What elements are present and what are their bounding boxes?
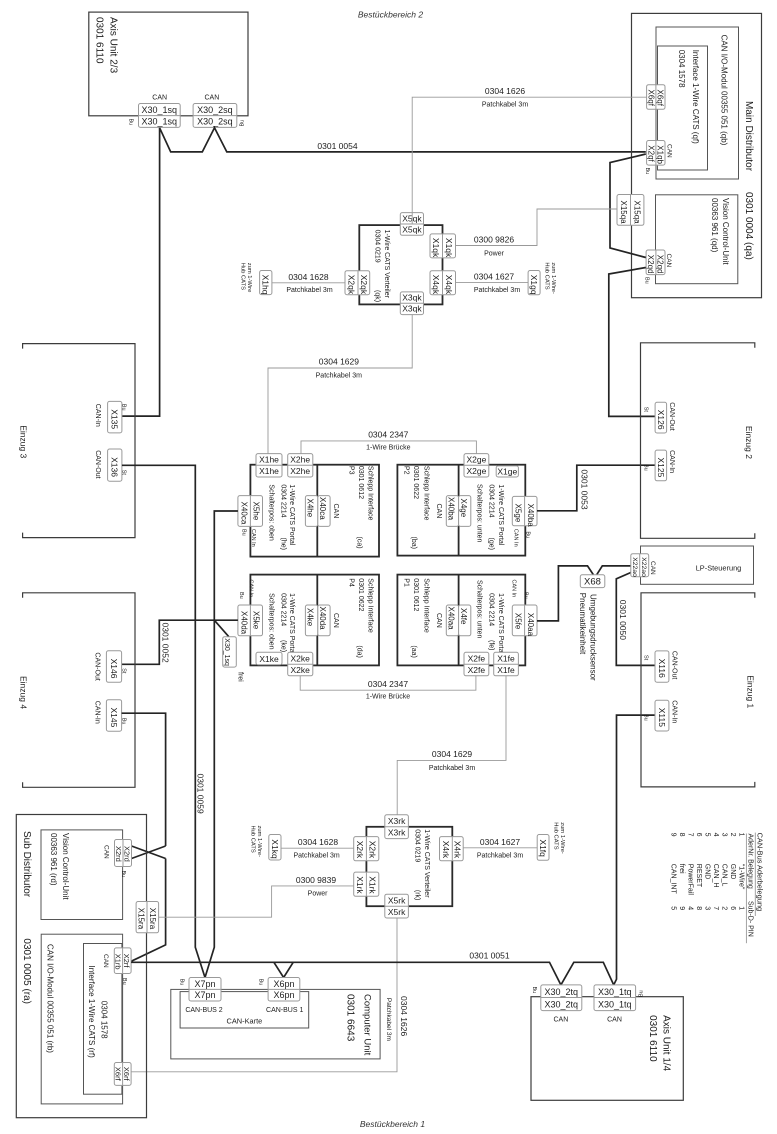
svg-text:Bu: Bu [644, 168, 650, 175]
svg-text:1-Wire CATS Portal: 1-Wire CATS Portal [497, 593, 504, 654]
svg-text:CAN I/O-Modul 00355 051 (rb: CAN I/O-Modul 00355 051 (rb) [45, 944, 54, 1053]
svg-text:0304 2347: 0304 2347 [368, 429, 408, 439]
svg-text:Schlepp Interface: Schlepp Interface [366, 466, 373, 521]
svg-text:X15ra: X15ra [148, 908, 157, 930]
svg-text:1-Wire CATS Portal: 1-Wire CATS Portal [497, 484, 504, 545]
svg-text:0304 1626: 0304 1626 [399, 996, 409, 1036]
svg-text:5: 5 [669, 906, 676, 910]
svg-text:Bu: Bu [524, 531, 530, 538]
svg-text:1-Wire CATS Portal: 1-Wire CATS Portal [288, 593, 295, 654]
svg-text:X30_1sq: X30_1sq [223, 638, 230, 666]
svg-text:(fe): (fe) [487, 640, 494, 651]
svg-text:9: 9 [669, 833, 676, 837]
svg-text:(ca): (ca) [356, 537, 363, 549]
svg-text:CAN_L: CAN_L [720, 864, 727, 887]
svg-text:X3qk: X3qk [402, 293, 422, 303]
svg-text:CAN: CAN [554, 1017, 569, 1024]
svg-text:X1rb: X1rb [114, 954, 123, 970]
svg-text:CAN-BUS 1: CAN-BUS 1 [266, 1007, 303, 1014]
svg-text:6: 6 [729, 906, 736, 910]
svg-text:X1fe: X1fe [497, 654, 515, 664]
svg-text:Power: Power [308, 890, 329, 897]
svg-text:X2rk: X2rk [368, 841, 378, 859]
svg-text:X2rk: X2rk [355, 841, 365, 859]
svg-text:X2rd: X2rd [114, 846, 123, 862]
svg-text:X1fe: X1fe [497, 665, 515, 675]
svg-text:0304 1628: 0304 1628 [288, 272, 328, 282]
svg-text:Sub-D- PIN: Sub-D- PIN [747, 901, 754, 937]
svg-text:X68: X68 [584, 577, 601, 588]
svg-text:X2rf: X2rf [122, 954, 131, 969]
svg-text:Bu: Bu [178, 979, 184, 986]
svg-text:X4qk: X4qk [444, 275, 454, 295]
svg-text:PowerFail: PowerFail [686, 864, 693, 896]
svg-text:0301 0612: 0301 0612 [357, 466, 364, 499]
svg-text:Bu: Bu [643, 714, 649, 721]
svg-text:(ge): (ge) [487, 538, 494, 550]
svg-text:Main Distributor: Main Distributor [743, 101, 754, 172]
svg-text:CAN-In: CAN-In [94, 404, 101, 427]
svg-text:X15qa: X15qa [632, 201, 641, 225]
svg-text:CAN-In: CAN-In [93, 701, 100, 724]
svg-text:0301 0059: 0301 0059 [195, 774, 205, 814]
svg-text:Hub CATS: Hub CATS [249, 826, 255, 853]
svg-text:Patchkabel 3m: Patchkabel 3m [286, 287, 332, 294]
svg-text:RESET: RESET [695, 864, 702, 888]
svg-text:CAN I/O-Modul 00355 051 (qb: CAN I/O-Modul 00355 051 (qb) [720, 35, 729, 146]
svg-text:Bu: Bu [121, 978, 127, 985]
svg-text:X4rk: X4rk [441, 841, 451, 859]
svg-text:Bu: Bu [531, 987, 537, 994]
svg-text:0304 0219: 0304 0219 [414, 829, 421, 862]
svg-text:CAN-Out: CAN-Out [94, 450, 101, 478]
svg-text:Patchkabel 3m: Patchkabel 3m [316, 373, 362, 380]
svg-text:GND: GND [703, 864, 710, 880]
svg-text:0304 2214: 0304 2214 [280, 484, 287, 517]
svg-text:CAN-In: CAN-In [670, 700, 677, 723]
svg-text:CAN In: CAN In [512, 529, 518, 547]
svg-text:CAN: CAN [152, 95, 167, 102]
svg-text:X5rk: X5rk [388, 896, 406, 906]
svg-text:4: 4 [712, 833, 719, 837]
svg-text:X40da: X40da [239, 611, 248, 635]
svg-text:Hub CATS: Hub CATS [240, 263, 246, 290]
svg-text:0304 1627: 0304 1627 [480, 837, 520, 847]
svg-text:0304 1578: 0304 1578 [99, 1001, 108, 1039]
svg-text:Patchkabel 3m: Patchkabel 3m [293, 853, 339, 860]
svg-text:0301 0054: 0301 0054 [317, 141, 357, 151]
svg-text:1-Wire Brücke: 1-Wire Brücke [366, 445, 410, 452]
svg-text:X4fe: X4fe [459, 608, 468, 625]
svg-text:Umgebungsdrucksensor: Umgebungsdrucksensor [588, 594, 597, 681]
svg-text:Schlepp Interface: Schlepp Interface [422, 578, 429, 633]
svg-text:Bu: Bu [121, 718, 127, 725]
svg-text:X2fe: X2fe [468, 654, 486, 664]
svg-text:Patchkabel 3m: Patchkabel 3m [477, 852, 523, 859]
svg-text:0301 6110: 0301 6110 [647, 1015, 658, 1062]
svg-text:X6rf: X6rf [122, 1067, 131, 1082]
svg-text:CAN: CAN [102, 954, 109, 968]
svg-text:Pneumatikeinheit: Pneumatikeinheit [578, 593, 587, 655]
svg-text:00363 961 (rd): 00363 961 (rd) [49, 833, 58, 886]
svg-text:Sub Distributor: Sub Distributor [21, 831, 32, 898]
svg-text:X1he: X1he [259, 466, 279, 476]
svg-text:3: 3 [703, 906, 710, 910]
svg-text:Axis Unit 1/4: Axis Unit 1/4 [660, 1015, 671, 1072]
svg-text:0304 1629: 0304 1629 [432, 749, 472, 759]
svg-text:X1ke: X1ke [259, 654, 279, 664]
svg-text:0304 2347: 0304 2347 [368, 679, 408, 689]
svg-text:X40da: X40da [318, 607, 327, 631]
svg-text:CAN: CAN [332, 504, 339, 519]
svg-text:0304 1627: 0304 1627 [474, 272, 514, 282]
svg-text:X1ge: X1ge [497, 466, 517, 476]
svg-text:AderNr. Belegung: AderNr. Belegung [747, 834, 754, 889]
svg-text:frei: frei [236, 672, 243, 682]
svg-text:X4rk: X4rk [453, 841, 463, 859]
svg-text:Schalterpos: oben: Schalterpos: oben [267, 484, 274, 541]
svg-text:St: St [120, 470, 126, 476]
svg-text:X4he: X4he [306, 499, 315, 518]
svg-text:CAN-Out: CAN-Out [670, 651, 677, 679]
svg-text:2: 2 [729, 833, 736, 837]
svg-text:X22ao: X22ao [631, 557, 638, 577]
svg-text:00363 961 (qd): 00363 961 (qd) [710, 198, 719, 253]
svg-text:0301 6110: 0301 6110 [94, 17, 105, 64]
svg-text:CAN: CAN [665, 254, 672, 268]
svg-text:X1he: X1he [259, 455, 279, 465]
svg-text:CAN-Karte: CAN-Karte [227, 1017, 263, 1026]
svg-text:LP-Steuerung: LP-Steuerung [696, 564, 742, 573]
svg-text:(ke): (ke) [280, 640, 287, 652]
svg-text:CAN: CAN [332, 613, 339, 628]
svg-text:X1gq: X1gq [529, 275, 539, 295]
svg-text:X30_2tq: X30_2tq [545, 1000, 579, 1010]
svg-text:Bestückbereich 1: Bestückbereich 1 [360, 1119, 425, 1129]
svg-text:X1rk: X1rk [368, 876, 378, 894]
svg-text:X6qf: X6qf [656, 90, 665, 107]
svg-text:X6rf: X6rf [114, 1067, 123, 1082]
svg-text:3: 3 [720, 833, 727, 837]
svg-text:0301 6643: 0301 6643 [345, 994, 356, 1042]
svg-text:CAN: CAN [607, 1017, 622, 1024]
svg-text:X5qk: X5qk [402, 224, 422, 234]
svg-text:Vision Control-Unit: Vision Control-Unit [721, 198, 730, 265]
svg-text:2: 2 [720, 906, 727, 910]
svg-text:0301 0622: 0301 0622 [412, 466, 419, 499]
svg-text:Bestückbereich 2: Bestückbereich 2 [358, 10, 423, 20]
svg-text:X2he: X2he [290, 455, 310, 465]
svg-text:X30_1sq: X30_1sq [142, 117, 178, 127]
svg-text:P4: P4 [348, 578, 355, 587]
svg-text:Bu: Bu [240, 120, 246, 127]
svg-text:GND: GND [729, 864, 736, 880]
svg-text:X30_1tq: X30_1tq [598, 987, 632, 997]
svg-text:0301 0622: 0301 0622 [357, 578, 364, 611]
svg-text:X4ge: X4ge [459, 499, 468, 518]
svg-text:X5ke: X5ke [252, 611, 261, 630]
svg-text:Hub CATS: Hub CATS [543, 262, 549, 289]
svg-text:1: 1 [737, 906, 744, 910]
svg-text:8: 8 [678, 833, 685, 837]
svg-text:0301 0612: 0301 0612 [412, 578, 419, 611]
svg-text:Schalterpos: oben: Schalterpos: oben [267, 593, 274, 650]
svg-text:Patchkabel 3m: Patchkabel 3m [429, 765, 475, 772]
svg-text:zum 1-Wire-: zum 1-Wire- [550, 262, 556, 294]
svg-text:X2fe: X2fe [468, 665, 486, 675]
svg-text:Einzug 1: Einzug 1 [745, 675, 755, 708]
svg-text:zum 1-Wire-: zum 1-Wire- [256, 826, 262, 858]
svg-text:X4ke: X4ke [306, 608, 315, 627]
svg-text:Schalterpos: unten: Schalterpos: unten [476, 580, 483, 638]
svg-text:X40ba: X40ba [526, 504, 535, 528]
svg-text:X3rk: X3rk [388, 828, 406, 838]
svg-text:X40aa: X40aa [447, 607, 456, 631]
svg-text:CAN: CAN [435, 613, 442, 628]
svg-text:7: 7 [686, 833, 693, 837]
svg-text:Schlepp Interface: Schlepp Interface [422, 466, 429, 521]
svg-text:X1qk: X1qk [431, 238, 441, 258]
svg-text:X6pn: X6pn [273, 979, 294, 989]
svg-text:X40ca: X40ca [239, 502, 248, 525]
svg-text:Patchkabel 3m: Patchkabel 3m [474, 287, 520, 294]
svg-text:frei: frei [678, 864, 685, 874]
svg-text:0300 9839: 0300 9839 [296, 875, 336, 885]
svg-text:0301 0050: 0301 0050 [618, 600, 628, 640]
svg-text:CAN-In: CAN-In [668, 450, 675, 473]
svg-text:0304 1626: 0304 1626 [485, 86, 525, 96]
svg-text:9: 9 [678, 906, 685, 910]
svg-text:X30_2tq: X30_2tq [545, 987, 579, 997]
svg-text:X30_2sq: X30_2sq [197, 105, 233, 115]
svg-text:X2qk: X2qk [346, 275, 356, 295]
svg-text:St: St [643, 407, 649, 413]
svg-text:CAN-Out: CAN-Out [668, 402, 675, 430]
svg-text:X2ke: X2ke [291, 654, 311, 664]
svg-text:X30_1tq: X30_1tq [598, 1000, 632, 1010]
svg-text:Einzug 2: Einzug 2 [744, 426, 754, 459]
svg-text:X30_1sq: X30_1sq [142, 105, 178, 115]
svg-text:CAN: CAN [205, 95, 220, 102]
svg-text:X6pn: X6pn [273, 990, 294, 1000]
svg-text:CAN_INT: CAN_INT [669, 864, 676, 895]
svg-text:X5he: X5he [252, 502, 261, 521]
svg-text:Interface 1-Wire CATS (rf): Interface 1-Wire CATS (rf) [87, 966, 96, 1059]
svg-text:Patchkabel 3m: Patchkabel 3m [482, 102, 528, 109]
svg-text:0304 0219: 0304 0219 [374, 230, 381, 263]
svg-text:(rk): (rk) [414, 890, 421, 901]
svg-text:Bu: Bu [643, 464, 649, 471]
svg-text:Bu: Bu [522, 592, 528, 599]
svg-text:Power: Power [484, 251, 505, 258]
svg-text:X2qd: X2qd [656, 255, 665, 274]
svg-text:1-Wire CATS Verteiler: 1-Wire CATS Verteiler [383, 230, 390, 299]
svg-text:Bu: Bu [120, 404, 126, 411]
svg-text:CAN: CAN [649, 561, 656, 575]
svg-text:(qk): (qk) [374, 290, 381, 302]
svg-text:X5rk: X5rk [388, 907, 406, 917]
svg-text:X7pn: X7pn [194, 979, 215, 989]
svg-text:Einzug 3: Einzug 3 [19, 425, 29, 458]
svg-text:X22ao: X22ao [640, 557, 647, 577]
svg-text:zum 1-Wire: zum 1-Wire [246, 263, 252, 293]
svg-text:0304 1629: 0304 1629 [319, 357, 359, 367]
svg-text:X116: X116 [657, 659, 667, 678]
svg-text:0301 0004 (qa): 0301 0004 (qa) [743, 192, 754, 260]
svg-text:(da): (da) [356, 645, 363, 657]
svg-text:Einzug 4: Einzug 4 [19, 676, 29, 709]
svg-text:X2he: X2he [290, 466, 310, 476]
svg-text:CAN-Bus Aderbelegung: CAN-Bus Aderbelegung [756, 833, 765, 911]
svg-text:X1qk: X1qk [444, 238, 454, 258]
svg-text:5: 5 [703, 833, 710, 837]
svg-text:CAN-Out: CAN-Out [93, 652, 100, 680]
svg-text:X40ca: X40ca [318, 497, 327, 520]
svg-text:X2rd: X2rd [123, 846, 132, 862]
svg-text:0304 2214: 0304 2214 [487, 593, 494, 626]
svg-text:X1qb: X1qb [656, 145, 665, 164]
svg-text:7: 7 [712, 906, 719, 910]
svg-text:X1kq: X1kq [270, 839, 280, 859]
svg-text:St: St [121, 668, 127, 674]
svg-text:6: 6 [695, 833, 702, 837]
svg-text:0301 0051: 0301 0051 [469, 950, 509, 960]
svg-text:Interface 1-Wire CATS (qf): Interface 1-Wire CATS (qf) [691, 50, 700, 144]
svg-text:CAN_H: CAN_H [712, 864, 719, 888]
svg-text:Bu: Bu [127, 119, 133, 126]
svg-text:X136: X136 [110, 457, 120, 477]
svg-text:X5fe: X5fe [514, 613, 523, 630]
svg-text:X4qk: X4qk [431, 275, 441, 295]
svg-text:Bu: Bu [240, 529, 246, 536]
svg-text:X135: X135 [110, 409, 120, 429]
svg-text:X146: X146 [109, 659, 119, 679]
svg-text:X15qa: X15qa [619, 201, 628, 225]
svg-text:X5ge: X5ge [514, 504, 523, 523]
svg-text:Bu: Bu [643, 277, 649, 284]
svg-text:X2qf: X2qf [646, 145, 655, 162]
svg-text:8: 8 [695, 906, 702, 910]
svg-text:1-Wire Brücke: 1-Wire Brücke [366, 694, 410, 701]
svg-text:X2qd: X2qd [646, 255, 655, 274]
svg-text:0304 2214: 0304 2214 [280, 593, 287, 626]
svg-text:Patchkabel 3m: Patchkabel 3m [385, 998, 392, 1041]
svg-text:Computer Unit: Computer Unit [362, 994, 373, 1056]
svg-text:Axis Unit 2/3: Axis Unit 2/3 [108, 17, 119, 74]
svg-text:Bu: Bu [639, 990, 645, 997]
svg-text:X2ge: X2ge [466, 466, 486, 476]
svg-text:P2: P2 [403, 466, 410, 475]
svg-text:CAN In: CAN In [248, 580, 254, 598]
svg-text:CAN-BUS 2: CAN-BUS 2 [185, 1007, 222, 1014]
svg-text:CAN In: CAN In [510, 580, 516, 598]
svg-text:1-Wire CATS Portal: 1-Wire CATS Portal [288, 484, 295, 545]
svg-text:1-Wire CATS Verteiler: 1-Wire CATS Verteiler [423, 829, 430, 898]
svg-text:0301 0053: 0301 0053 [580, 469, 590, 509]
svg-text:X3rk: X3rk [388, 816, 406, 826]
svg-text:X7pn: X7pn [194, 990, 215, 1000]
svg-text:Hub CATS: Hub CATS [552, 822, 558, 849]
svg-text:0304 2214: 0304 2214 [487, 484, 494, 517]
svg-text:X125: X125 [656, 458, 666, 478]
svg-text:X1fq: X1fq [538, 839, 548, 857]
svg-text:"1-Wire": "1-Wire" [737, 864, 744, 890]
svg-text:1: 1 [737, 833, 744, 837]
svg-text:X2ge: X2ge [466, 455, 486, 465]
svg-text:0301 0052: 0301 0052 [161, 623, 171, 663]
svg-text:CAN: CAN [666, 144, 673, 158]
svg-text:0300 9826: 0300 9826 [474, 235, 514, 245]
svg-text:X126: X126 [656, 410, 666, 430]
svg-text:X3qk: X3qk [402, 304, 422, 314]
svg-text:CAN In: CAN In [250, 529, 256, 547]
svg-text:X15ra: X15ra [137, 908, 146, 930]
svg-text:X2ke: X2ke [291, 665, 311, 675]
svg-text:X30_2sq: X30_2sq [197, 117, 233, 127]
svg-text:(aa): (aa) [410, 645, 417, 657]
svg-text:Schlepp Interface: Schlepp Interface [366, 578, 373, 633]
svg-text:X2qk: X2qk [359, 275, 369, 295]
svg-text:CAN: CAN [435, 504, 442, 519]
svg-text:X1rk: X1rk [355, 876, 365, 894]
svg-text:Vision Control-Unit: Vision Control-Unit [61, 833, 70, 900]
svg-text:4: 4 [686, 906, 693, 910]
svg-text:Schalterpos: unten: Schalterpos: unten [476, 484, 483, 542]
svg-text:0304 1628: 0304 1628 [298, 837, 338, 847]
svg-text:0304 1578: 0304 1578 [677, 50, 686, 88]
svg-text:X1hq: X1hq [261, 275, 271, 295]
svg-text:Bu: Bu [238, 592, 244, 599]
svg-text:X145: X145 [109, 708, 119, 728]
svg-text:X6qf: X6qf [646, 90, 655, 107]
svg-text:CAN: CAN [103, 845, 110, 859]
svg-text:St: St [643, 655, 649, 661]
svg-text:Bu: Bu [257, 979, 263, 986]
svg-text:(he): (he) [280, 538, 287, 550]
svg-text:(ba): (ba) [410, 537, 417, 549]
svg-text:X115: X115 [657, 708, 667, 727]
svg-text:X40aa: X40aa [526, 613, 535, 637]
svg-text:P1: P1 [403, 578, 410, 587]
svg-text:Bu: Bu [120, 871, 126, 878]
svg-text:X40ba: X40ba [447, 497, 456, 521]
svg-text:P3: P3 [348, 466, 355, 475]
svg-text:zum 1-Wire-: zum 1-Wire- [559, 822, 565, 854]
svg-text:0301 0005 (ra): 0301 0005 (ra) [21, 938, 32, 1004]
